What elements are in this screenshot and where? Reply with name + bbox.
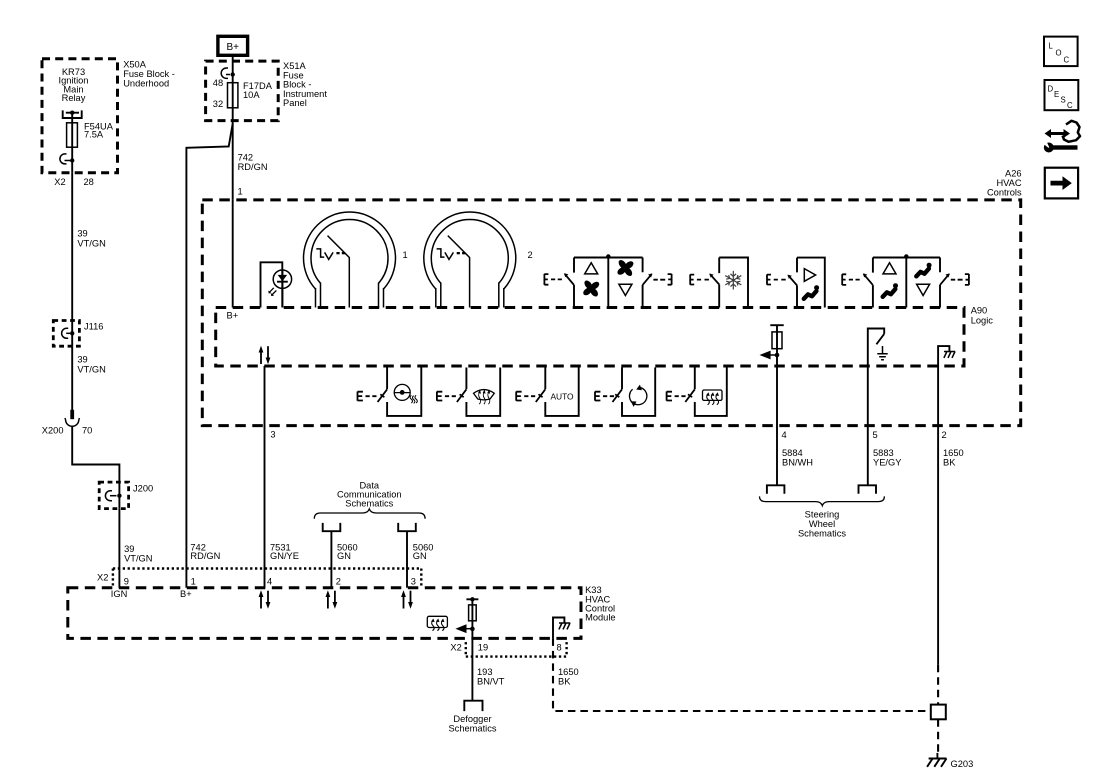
fuse F17DA 10A xyxy=(228,81,273,108)
steering wheel brace xyxy=(760,496,885,505)
rear defog switch (E) xyxy=(667,389,695,402)
fuse block X51A box xyxy=(206,61,328,121)
fan switch boxes xyxy=(574,254,643,307)
svg-text:3: 3 xyxy=(411,577,416,587)
wire A90 to A26 pin 3 xyxy=(265,366,276,588)
A/C snowflake box xyxy=(719,258,748,308)
wire to ground xyxy=(937,719,939,753)
blower switch (E) xyxy=(358,389,388,402)
wire 193 BN/VT xyxy=(472,638,504,700)
linkage right xyxy=(951,274,969,285)
off-page connector xyxy=(859,485,877,493)
svg-text:B+: B+ xyxy=(180,589,192,599)
auto box xyxy=(545,368,578,416)
svg-text:BN/VT: BN/VT xyxy=(477,676,505,686)
data communication label xyxy=(337,481,402,509)
svg-text:Controls: Controls xyxy=(987,188,1022,198)
svg-text:28: 28 xyxy=(84,177,94,187)
svg-text:1: 1 xyxy=(191,577,196,587)
svg-text:VT/GN: VT/GN xyxy=(77,238,105,248)
svg-text:Panel: Panel xyxy=(283,98,307,108)
svg-text:S: S xyxy=(1061,96,1066,105)
switch blade xyxy=(788,275,797,285)
wire xyxy=(72,426,119,482)
wire 742 branch to K33 pin 1 xyxy=(186,124,232,588)
wire 39 VT/GN xyxy=(72,346,106,410)
wire 7531 GN/YE label xyxy=(270,543,299,562)
svg-text:2: 2 xyxy=(528,250,533,260)
HVAC control module K33 box xyxy=(68,585,616,638)
HVAC controls module A26 box xyxy=(202,169,1022,426)
off-page connector xyxy=(767,485,785,493)
signal arrow node xyxy=(760,351,780,360)
relay KR73 xyxy=(59,67,89,118)
svg-text:3: 3 xyxy=(270,430,275,440)
switch A/C (linkage E) xyxy=(690,274,709,284)
splice pack xyxy=(931,705,946,720)
off-page connector defogger xyxy=(464,701,482,711)
svg-text:Relay: Relay xyxy=(62,93,86,103)
pin 9 IGN xyxy=(111,577,129,600)
svg-text:X200: X200 xyxy=(42,426,64,436)
steering pull-up resistor xyxy=(770,325,783,366)
svg-text:742: 742 xyxy=(238,153,254,163)
wire 1650 BK dashed to splice xyxy=(937,665,939,705)
recirculation box icon xyxy=(622,368,655,416)
wire xyxy=(71,113,73,123)
svg-text:Module: Module xyxy=(585,613,616,623)
svg-text:B+: B+ xyxy=(227,311,239,321)
svg-text:4: 4 xyxy=(782,430,787,440)
data arrows inside A90 xyxy=(259,346,271,365)
actuator gauge 1 xyxy=(304,212,408,307)
rear defogger icon inside K33 xyxy=(427,616,447,630)
svg-text:D: D xyxy=(1048,85,1054,94)
svg-text:GN: GN xyxy=(413,551,427,561)
wire xyxy=(71,147,73,173)
svg-text:BK: BK xyxy=(943,457,956,467)
svg-text:X2: X2 xyxy=(54,177,65,187)
svg-text:A90: A90 xyxy=(971,306,988,316)
auto switch (E) xyxy=(516,389,545,402)
svg-text:RD/GN: RD/GN xyxy=(238,162,268,172)
rear defog box icon xyxy=(695,368,727,416)
connector X2 pin 28 xyxy=(54,154,94,187)
svg-text:19: 19 xyxy=(478,643,488,653)
svg-text:E: E xyxy=(1054,90,1059,99)
chassis ground hook inside K33 xyxy=(553,618,570,639)
switch vent mode (linkage E) xyxy=(767,274,786,284)
connector X2 face at K33 bottom xyxy=(450,642,566,657)
svg-text:L: L xyxy=(1049,42,1054,51)
pin 3 data arrows xyxy=(401,577,416,609)
defogger driver resistor xyxy=(466,597,478,638)
wire 5060 GN to K33 pin 2 xyxy=(331,531,357,588)
svg-text:48: 48 xyxy=(213,78,223,88)
fuse F54UA 7.5A xyxy=(67,122,114,148)
svg-text:B+: B+ xyxy=(226,42,239,53)
vent mode box xyxy=(797,258,825,308)
connector X2 face at K33 top xyxy=(97,569,421,587)
svg-text:7.5A: 7.5A xyxy=(84,130,104,140)
icon DESC button xyxy=(1045,80,1079,110)
svg-text:Wheel: Wheel xyxy=(809,519,835,529)
switch temperature (linkage E left) xyxy=(842,274,860,285)
svg-text:X50A: X50A xyxy=(123,60,147,70)
svg-text:YE/GY: YE/GY xyxy=(873,457,901,467)
icon forward arrow button xyxy=(1045,168,1078,199)
svg-text:RD/GN: RD/GN xyxy=(190,551,220,561)
wire 39 VT/GN to K33 pin 9 xyxy=(119,509,152,588)
svg-text:1: 1 xyxy=(238,187,243,197)
logic block A90 box xyxy=(216,306,994,367)
wire 5060 GN to K33 pin 3 xyxy=(407,531,433,588)
svg-text:Logic: Logic xyxy=(971,316,994,326)
actuator gauge 2 xyxy=(424,212,533,307)
svg-text:32: 32 xyxy=(213,99,223,109)
svg-text:VT/GN: VT/GN xyxy=(77,365,105,375)
defogger schematics label xyxy=(448,714,496,733)
svg-text:5: 5 xyxy=(873,430,878,440)
defrost box windshield icon xyxy=(466,368,500,416)
svg-text:70: 70 xyxy=(82,426,92,436)
svg-text:C: C xyxy=(1067,101,1073,110)
wire 742 RD/GN xyxy=(233,108,268,200)
svg-text:O: O xyxy=(1056,49,1062,58)
earth ground xyxy=(877,346,887,360)
svg-text:9: 9 xyxy=(124,577,129,587)
svg-text:HVAC: HVAC xyxy=(996,178,1021,188)
svg-text:4: 4 xyxy=(267,577,272,587)
wire 1650 BK from pin 8 xyxy=(553,638,931,711)
switch blade xyxy=(710,274,719,284)
wire 5883 YE/GY pin 5 xyxy=(868,366,902,485)
svg-text:IGN: IGN xyxy=(111,589,128,599)
svg-text:1: 1 xyxy=(403,250,408,260)
svg-text:Steering: Steering xyxy=(805,510,840,520)
svg-text:39: 39 xyxy=(77,355,87,365)
wire 742 into A26 pin 1 xyxy=(232,200,234,308)
switch to ground pin 5 xyxy=(868,329,884,367)
switch blade right xyxy=(643,274,652,285)
switch blade left xyxy=(565,274,574,285)
svg-text:2: 2 xyxy=(336,577,341,587)
connector X200 pin 70 xyxy=(42,410,93,436)
icon LOC button xyxy=(1044,37,1078,67)
blower box with heater icon xyxy=(387,368,421,416)
svg-text:C: C xyxy=(1064,56,1070,65)
linkage right xyxy=(653,274,671,285)
chassis ground hook inside A90 xyxy=(938,346,955,366)
switch blade left xyxy=(864,274,873,285)
svg-text:10A: 10A xyxy=(243,90,260,100)
connector pin 48 xyxy=(213,61,235,109)
steering wheel schematics label xyxy=(798,510,846,539)
svg-text:J116: J116 xyxy=(84,322,103,332)
svg-text:G203: G203 xyxy=(951,759,974,769)
svg-text:BN/WH: BN/WH xyxy=(782,457,813,467)
svg-text:X2: X2 xyxy=(450,643,461,653)
wire 1650 BK pin 2 xyxy=(938,366,964,665)
splice J116 xyxy=(53,321,103,347)
svg-text:Schematics: Schematics xyxy=(448,723,496,733)
pin 4 data arrows xyxy=(259,577,273,609)
data communication brace xyxy=(314,509,425,519)
off-page connector serial data A xyxy=(323,523,341,531)
svg-text:J200: J200 xyxy=(133,484,153,494)
switch blade right xyxy=(940,274,949,285)
ground G203 xyxy=(927,753,973,769)
pin 2 data arrows xyxy=(326,577,341,609)
svg-text:BK: BK xyxy=(558,676,571,686)
battery feed B+ xyxy=(218,36,248,61)
svg-text:Schematics: Schematics xyxy=(345,499,393,509)
svg-text:GN: GN xyxy=(337,551,351,561)
svg-text:39: 39 xyxy=(124,544,134,554)
svg-text:8: 8 xyxy=(557,643,562,653)
switch fan speed (linkage E left) xyxy=(544,274,562,285)
svg-text:2: 2 xyxy=(942,430,947,440)
svg-text:39: 39 xyxy=(77,228,87,238)
defrost switch (E) xyxy=(437,389,467,402)
splice J200 xyxy=(99,482,153,509)
svg-text:GN/YE: GN/YE xyxy=(270,551,299,561)
icon diagnostic wrench xyxy=(1041,121,1081,153)
defogger signal arrow xyxy=(455,624,474,633)
svg-text:X2: X2 xyxy=(97,573,108,583)
svg-text:Schematics: Schematics xyxy=(798,529,846,539)
svg-text:AUTO: AUTO xyxy=(550,391,574,401)
svg-text:VT/GN: VT/GN xyxy=(124,554,152,564)
pin 1 B+ xyxy=(180,577,196,600)
indicator LED lamp xyxy=(261,262,292,307)
svg-text:Underhood: Underhood xyxy=(123,79,169,89)
wire 5884 BN/WH pin 4 xyxy=(777,366,813,485)
svg-text:Fuse Block -: Fuse Block - xyxy=(123,69,175,79)
wire 39 VT/GN xyxy=(72,173,106,321)
svg-text:A26: A26 xyxy=(1005,169,1022,179)
fuse block X50A box xyxy=(42,59,175,173)
recirculation switch (E) xyxy=(595,389,622,402)
temperature switch boxes xyxy=(873,254,940,307)
off-page connector serial data B xyxy=(398,523,416,531)
